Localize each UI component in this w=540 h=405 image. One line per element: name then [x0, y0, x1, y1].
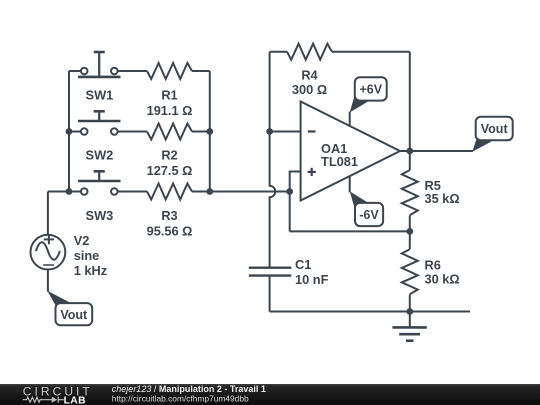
voltage source V2	[31, 192, 66, 292]
resistor R5	[402, 170, 418, 215]
svg-text:127.5 Ω: 127.5 Ω	[147, 163, 193, 178]
wire R4 left vertical with hop over row3 wire	[270, 52, 276, 268]
resistor R2	[147, 124, 192, 140]
svg-text:10 nF: 10 nF	[295, 272, 329, 287]
op-amp OA1	[301, 102, 400, 201]
svg-text:TL081: TL081	[321, 154, 358, 169]
svg-text:SW2: SW2	[86, 148, 114, 163]
svg-text:http://circuitlab.com/cfhmp7um: http://circuitlab.com/cfhmp7um49dbb	[112, 393, 249, 403]
node left rail row3	[66, 188, 73, 195]
wire R6 to ground rail	[409, 295, 411, 312]
footer bar	[0, 384, 540, 405]
wire left rail	[68, 71, 70, 192]
svg-text:R3: R3	[161, 208, 177, 223]
ground	[392, 312, 426, 341]
wire R3 to op-amp plus node	[192, 191, 290, 193]
svg-text:30 kΩ: 30 kΩ	[425, 272, 460, 287]
svg-text:sine: sine	[74, 248, 100, 263]
op-amp plus symbol	[308, 168, 316, 176]
wire bottom rail	[270, 311, 470, 313]
svg-text:R4: R4	[301, 68, 318, 83]
wire R2 right to rail	[192, 131, 210, 133]
resistor R6	[402, 249, 418, 294]
wire op-amp output	[400, 150, 473, 152]
wire row1 right (R1 to right rail corner)	[117, 70, 147, 72]
svg-text:+6V: +6V	[360, 83, 383, 97]
wire plus input	[290, 172, 301, 232]
wire plus node to R5/R6 junction	[290, 230, 410, 232]
wire row2 right	[117, 131, 147, 133]
wire R5 to junction	[409, 215, 411, 249]
svg-text:Vout: Vout	[60, 308, 88, 322]
flag Vout (source)	[47, 291, 92, 326]
switch SW2	[78, 111, 121, 135]
svg-text:R6: R6	[425, 258, 441, 273]
node minus input	[266, 128, 273, 135]
svg-text:95.56 Ω: 95.56 Ω	[147, 223, 193, 238]
svg-text:SW1: SW1	[86, 88, 114, 103]
node ground rail	[406, 308, 413, 315]
svg-text:R1: R1	[161, 88, 177, 103]
node right rail row3	[206, 188, 213, 195]
op-amp top power pin	[349, 112, 351, 126]
switch SW1	[78, 52, 121, 77]
wire minus input	[270, 131, 301, 133]
wire output right rail	[409, 52, 411, 170]
svg-text:V2: V2	[74, 233, 90, 248]
wire right rail	[209, 71, 211, 192]
resistor R3	[147, 184, 192, 200]
node plus input	[286, 188, 293, 195]
svg-text:C1: C1	[295, 257, 311, 272]
wire row2 left	[69, 131, 81, 133]
flag -6V	[350, 191, 383, 226]
wire row3 left	[48, 191, 81, 193]
resistor R1	[147, 63, 192, 79]
resistor R4	[270, 44, 410, 60]
svg-text:35 kΩ: 35 kΩ	[425, 191, 460, 206]
switch SW3	[78, 171, 121, 195]
svg-text:Vout: Vout	[481, 122, 509, 136]
svg-text:300 Ω: 300 Ω	[292, 82, 327, 97]
wire row1 left	[69, 70, 81, 72]
op-amp bottom power pin	[349, 176, 351, 192]
svg-text:-6V: -6V	[359, 208, 379, 222]
svg-text:191.1 Ω: 191.1 Ω	[147, 103, 193, 118]
flag +6V	[350, 77, 387, 112]
node output	[406, 148, 413, 155]
svg-text:LAB: LAB	[64, 395, 86, 405]
node R5/R6 junction	[406, 228, 413, 235]
node right rail row2	[206, 128, 213, 135]
flag Vout (output)	[472, 117, 512, 152]
capacitor C1	[249, 268, 291, 312]
footer logo symbol	[23, 397, 64, 403]
op-amp minus symbol	[308, 130, 316, 132]
wire row3 right	[117, 191, 147, 193]
wire R1 right to rail	[192, 70, 210, 72]
svg-text:SW3: SW3	[86, 208, 114, 223]
svg-text:R2: R2	[161, 148, 177, 163]
node left rail row2	[66, 128, 73, 135]
svg-text:1 kHz: 1 kHz	[74, 263, 107, 278]
